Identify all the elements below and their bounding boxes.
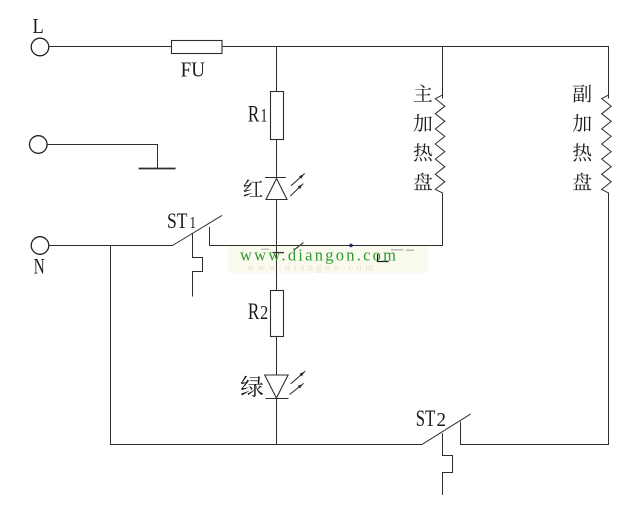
wire L to fuse <box>49 46 172 48</box>
terminal L <box>31 38 49 56</box>
wire N terminal to ST1 <box>49 245 173 247</box>
lever switch wire <box>47 145 157 168</box>
wire R1 to red LED <box>276 140 278 178</box>
heater main zigzag <box>435 95 445 193</box>
wire N branch vertical <box>110 246 112 445</box>
bottom wire right <box>461 444 609 446</box>
resistor R1 body <box>271 92 284 140</box>
artifact blue dot <box>349 244 353 248</box>
svg-text:2: 2 <box>437 409 447 431</box>
watermark tint <box>228 245 428 273</box>
heater aux zigzag <box>602 95 612 193</box>
svg-text:2: 2 <box>260 303 268 324</box>
wire red LED to R2 <box>276 200 278 291</box>
svg-text:L: L <box>33 14 44 38</box>
svg-text:R: R <box>248 299 260 325</box>
wire green LED to bottom wire <box>276 399 278 445</box>
main heater branch wire top <box>442 47 444 99</box>
artifact dark dash left of d <box>273 252 285 254</box>
svg-text:N: N <box>34 254 45 279</box>
artifact gray dashes <box>391 249 403 251</box>
ST2 thermal actuator step <box>443 434 453 495</box>
svg-text:ST: ST <box>167 208 188 233</box>
resistor R2 body <box>271 291 284 337</box>
lever switch plate <box>140 168 175 170</box>
svg-text:www.diangon.com: www.diangon.com <box>240 246 396 265</box>
svg-text:ST: ST <box>416 406 436 432</box>
green LED triangle <box>265 375 288 398</box>
ST1 fixed contact <box>209 228 211 246</box>
terminal mid (lever) <box>30 136 48 154</box>
ST1 blade <box>173 216 222 246</box>
svg-text:1: 1 <box>190 213 197 232</box>
ST2 blade <box>422 414 471 444</box>
wire main heater to ST1 node <box>442 193 444 246</box>
red LED triangle <box>266 179 287 200</box>
wire right vertical (top corner down to bottom wire) <box>608 47 610 99</box>
label hong (red) <box>244 179 263 197</box>
red LED arrows <box>290 174 305 197</box>
svg-text:R: R <box>248 102 260 128</box>
label aux heater: fu jia re pan <box>573 85 592 190</box>
wire aux heater to bottom <box>608 193 610 445</box>
fuse FU body <box>172 41 223 54</box>
svg-text:FU: FU <box>181 58 206 82</box>
wire fuse to top-right corner <box>222 46 609 48</box>
wire R1 branch top <box>276 47 278 92</box>
artifact slash over i <box>294 243 304 251</box>
label main heater: zhu jia re pan <box>414 84 433 190</box>
terminal N <box>31 237 49 255</box>
wire R2 to green LED <box>276 337 278 376</box>
svg-text:1: 1 <box>261 106 268 127</box>
ST2 fixed contact <box>460 422 462 444</box>
artifact dark corner mark <box>378 254 389 262</box>
ST1 thermal actuator step <box>193 234 203 296</box>
bottom wire left <box>111 444 422 446</box>
label lv (green) <box>241 376 263 398</box>
green LED arrows <box>290 371 306 394</box>
artifact gray overline over ww <box>261 248 269 250</box>
green LED cathode bar <box>266 398 288 400</box>
wire ST1 to main heater node <box>210 245 443 247</box>
red LED cathode bar <box>266 177 286 179</box>
